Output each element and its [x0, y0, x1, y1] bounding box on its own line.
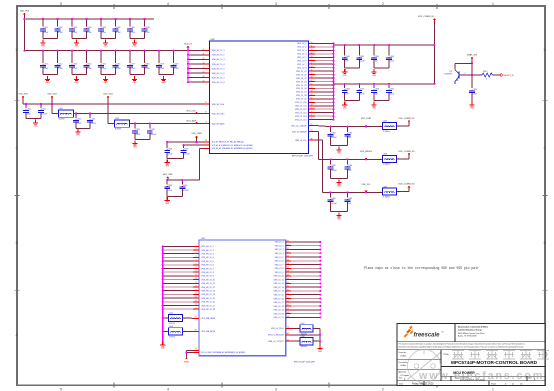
svg-text:VSS_LV_C11: VSS_LV_C11: [295, 106, 306, 108]
wire bank r1 pair0 join: [345, 67, 360, 69]
pin label VDD_LV_5: [297, 57, 306, 59]
svg-text:VSS_LV_C8: VSS_LV_C8: [296, 95, 306, 97]
svg-text:C326: C326: [168, 149, 172, 151]
svg-text:C360: C360: [331, 132, 335, 134]
capacitor C313 0.1uF (row2): [71, 50, 73, 63]
capacitor C340 bank row1: [344, 44, 346, 55]
svg-text:GND: GND: [162, 82, 167, 84]
wire pin VSS_LV_C6: [308, 87, 334, 89]
capacitor C305 0.1uF (row1): [100, 18, 102, 27]
wire bank r2 pair1 join: [374, 100, 389, 102]
svg-text:GND: GND: [41, 46, 46, 48]
svg-text:16: 16: [195, 300, 197, 302]
svg-text:VSS_HV_IO_6: VSS_HV_IO_6: [201, 265, 214, 267]
svg-text:14: 14: [195, 293, 197, 295]
svg-text:VDD_3V3: VDD_3V3: [103, 94, 113, 96]
svg-text:65: 65: [311, 94, 313, 96]
pin label VDD_LV_6: [297, 61, 306, 63]
wire L309 cap1 lower: [330, 202, 332, 211]
svg-text:TITLE:: TITLE:: [443, 354, 449, 356]
capacitor C344 bank row2: [344, 83, 346, 88]
power flag VDD_COMM_SO (L308): [398, 151, 415, 156]
wire capsP join: [167, 153, 183, 159]
wire pin VSS_HV_IO_3: [162, 252, 199, 254]
pin label VBB_LV_CLPVXT: [268, 341, 284, 343]
svg-text:72: 72: [311, 118, 313, 120]
ground bank r2 pair0: [342, 102, 347, 110]
svg-text:95: 95: [287, 297, 289, 299]
pin label VDD_HV_IO_3: [212, 59, 225, 61]
svg-text:VSS_LV_C2: VSS_LV_C2: [296, 74, 306, 76]
svg-text:1: 1: [380, 192, 381, 194]
svg-text:VSS_LV_10: VSS_LV_10: [274, 276, 284, 278]
svg-text:18: 18: [195, 308, 197, 310]
svg-text:VDD_LV_5: VDD_LV_5: [297, 57, 306, 59]
freescale logo: [404, 326, 445, 339]
svg-text:L317: L317: [301, 323, 305, 325]
svg-text:C320: C320: [174, 63, 178, 65]
power flag VDD_3V3 (chain A): [18, 94, 28, 99]
wire pin VDD_LV_5: [308, 56, 334, 58]
svg-text:C302: C302: [58, 27, 62, 29]
ferrite bead L303: [108, 123, 115, 125]
svg-text:VDD_HV_IO_7: VDD_HV_IO_7: [212, 77, 225, 79]
wire row1 cap 7 lower lead: [144, 31, 146, 38]
wire pin VSS_HV_IO_16: [162, 300, 199, 302]
wire pin VSS_LV_16: [286, 297, 322, 299]
svg-text:Size: Size: [399, 377, 402, 379]
transistor Q3: [445, 70, 466, 82]
pin label VSS_LV_13: [274, 287, 284, 289]
svg-text:3: 3: [275, 2, 277, 6]
capacitor L307 C1: [330, 126, 332, 132]
pin label VDD_HV_IO_5: [212, 68, 225, 70]
svg-text:VDD_HV_OSC: VDD_HV_OSC: [212, 113, 225, 115]
svg-text:58: 58: [311, 70, 313, 72]
capacitor C346 bank row2: [373, 83, 375, 88]
pin label VSS_LV_C8: [296, 95, 306, 97]
title block date row: [399, 382, 523, 385]
svg-text:VSS_LV_14: VSS_LV_14: [274, 291, 284, 293]
inductor L309 3.3uH: [380, 186, 399, 198]
wire row1 cap 5 lower lead: [115, 31, 117, 38]
wire row1 cap 4 lower lead: [100, 31, 102, 38]
svg-text:90: 90: [287, 278, 289, 280]
power flag VDD_COMM_SO (L307): [398, 118, 415, 123]
svg-text:2: 2: [382, 2, 384, 6]
wire pin VSS_LV_C5: [308, 84, 334, 86]
svg-text:VDD_LV_1: VDD_LV_1: [297, 43, 306, 45]
ground bank r1 pair0: [342, 69, 347, 77]
capacitor C322 2.2uF: [75, 112, 77, 117]
pin label VSS_LV_2: [275, 245, 284, 247]
svg-text:GND: GND: [75, 46, 80, 48]
pin label VDD_HV_ADR: [212, 122, 225, 125]
pin label VDD_LV_3: [297, 50, 306, 52]
wire row2 pair 1 join: [72, 74, 87, 76]
capacitor C301 0.1uF (row1): [42, 18, 44, 27]
pin label VDD_MA_SEN0: [201, 317, 215, 320]
wire pin VSS_LV_5: [286, 256, 322, 258]
pin label VSS_LV_10: [274, 276, 284, 278]
svg-text:Austin, TX 78735-8598: Austin, TX 78735-8598: [458, 335, 476, 338]
net label VDD_ADH: [186, 120, 197, 124]
svg-text:L307: L307: [383, 121, 387, 123]
wire pin VDD_HV_IO_6: [187, 72, 210, 75]
svg-text:17: 17: [195, 304, 197, 306]
svg-text:VSS_LV_C3: VSS_LV_C3: [296, 78, 306, 80]
ferrite bead L317: [291, 327, 300, 329]
svg-text:15: 15: [195, 297, 197, 299]
wire row L309: [322, 191, 382, 193]
svg-text:Date:: Date:: [399, 382, 404, 385]
capacitor L308 C2: [346, 158, 348, 164]
watermark circle emblem: [408, 350, 441, 383]
wire row2 cap 0 lower lead: [42, 68, 44, 75]
svg-text:GND: GND: [470, 108, 475, 110]
svg-text:VSS_LV_4: VSS_LV_4: [275, 253, 284, 255]
svg-text:VSS_LV_1: VSS_LV_1: [275, 242, 284, 244]
wire pin VSS_LV_C8: [308, 94, 334, 96]
wire pin VSS_HV_IO_1: [162, 245, 199, 247]
svg-text:B. Allen: B. Allen: [401, 355, 407, 358]
capacitor C317 0.1uF (row2): [129, 50, 131, 63]
wire bank r2 cap1 lower: [358, 93, 360, 101]
pin label VDD_HV_IO_4: [212, 64, 225, 66]
svg-text:44: 44: [203, 67, 205, 69]
wire pin VDD_LV_1: [308, 42, 334, 44]
capacitor C330 22uF: [469, 89, 477, 96]
svg-text:RESET_B: RESET_B: [504, 75, 515, 77]
svg-text:GND: GND: [343, 75, 348, 77]
svg-text:0.01uF: 0.01uF: [184, 154, 190, 156]
pin label VSS_LV_C2: [296, 74, 306, 76]
svg-text:VDD_COMM_SO: VDD_COMM_SO: [398, 118, 415, 120]
wire pin VSS_LV_C9: [308, 97, 334, 99]
svg-text:64: 64: [311, 91, 313, 93]
svg-text:GND: GND: [337, 218, 342, 220]
wire pin VSS_HV_IO_17: [162, 304, 199, 306]
pin label VDD_HV_IO_1: [212, 50, 225, 52]
svg-text:VBB_LV_CLPVXT: VBB_LV_CLPVXT: [268, 341, 284, 343]
svg-text:VSS_HV_IO_16: VSS_HV_IO_16: [201, 302, 215, 304]
svg-text:VDD_LV_3: VDD_LV_3: [297, 50, 306, 52]
pin label VSS_LV_1: [275, 242, 284, 244]
svg-text:C340: C340: [345, 56, 349, 58]
wire pin VSS_LV_C4: [308, 80, 334, 82]
svg-text:VSS_LV_5: VSS_LV_5: [275, 257, 284, 259]
svg-text:63: 63: [311, 87, 313, 89]
ground row1 pair 2: [103, 40, 108, 48]
pin label VDD_LV_1: [297, 43, 306, 45]
svg-text:VSS_HV_IO_13: VSS_HV_IO_13: [201, 291, 215, 293]
capacitor C321 0.01uF: [40, 103, 42, 108]
pin label VDD_LV_7: [297, 64, 306, 66]
net bus VSS left of U3C: [162, 246, 164, 343]
wire pin VSS_LV_C7: [308, 91, 334, 93]
svg-text:C361: C361: [348, 132, 352, 134]
wire line P1: [167, 140, 210, 143]
svg-text:L315: L315: [169, 313, 173, 315]
ground row2 pair 0: [45, 76, 50, 84]
wire pin stub for L307: [308, 125, 315, 127]
svg-text:VDD_3V3: VDD_3V3: [18, 94, 28, 96]
svg-text:1: 1: [166, 331, 167, 333]
wire pin VSS_LV_C2: [308, 73, 334, 75]
svg-text:Sheet: Sheet: [491, 382, 496, 385]
net flag FB3A: [184, 358, 189, 364]
svg-text:VSS_LV_C13: VSS_LV_C13: [295, 113, 307, 115]
net flag ADC_REF: [163, 173, 173, 180]
pin label VDD_LV_REG0B: [292, 130, 313, 133]
pin label VDD_HV_IO_6: [212, 73, 225, 75]
wire pin VSS_HV_IO_15: [162, 297, 199, 299]
svg-text:C361: C361: [348, 165, 352, 167]
wire pin VSS_LV_REGULB: [286, 332, 321, 336]
capacitor C316 0.1uF (row2): [114, 50, 116, 63]
svg-text:VSS_HV_IO_2: VSS_HV_IO_2: [201, 250, 214, 252]
pin label VSS_LV_C14: [295, 116, 307, 118]
wire row2 cap 1 lower lead: [57, 68, 59, 75]
wire pin VSS_HV_IO_14: [162, 293, 199, 295]
ground L308 caps: [336, 179, 341, 187]
svg-text:C307: C307: [131, 27, 135, 29]
svg-text:VSS_HV_IO_14: VSS_HV_IO_14: [201, 294, 215, 296]
svg-text:C305: C305: [102, 27, 106, 29]
svg-text:C314: C314: [87, 63, 91, 65]
ground row2 pair 4: [161, 76, 166, 84]
svg-text:VSS_LV_12: VSS_LV_12: [274, 283, 284, 285]
svg-text:VBAT_3V3: VBAT_3V3: [467, 53, 478, 56]
power flag VDD_3V3 (top-left): [20, 11, 30, 16]
svg-text:56: 56: [311, 63, 313, 65]
wire pin VSS_LV_1: [286, 241, 322, 243]
wire pin VSS_HV_IO_5: [162, 260, 199, 262]
svg-text:VSS_HV_IO_4: VSS_HV_IO_4: [201, 257, 214, 259]
title block drawing title: [443, 354, 538, 365]
capacitor C325 0.01uF: [149, 122, 151, 128]
pin label VDD_MA_ADV0: [201, 330, 215, 333]
wire pin VDD_HV_IO_3: [187, 58, 210, 61]
wire row2 cap 5 lower lead: [115, 68, 117, 75]
wire pin VSS_LV_3: [286, 248, 322, 250]
wire pin VSS_HV_IO_11: [162, 282, 199, 284]
svg-text:VDD_LV_2: VDD_LV_2: [297, 47, 306, 49]
svg-text:5: 5: [60, 387, 62, 391]
ground row2 pair 2: [103, 76, 108, 84]
svg-text:VSS_LV_C10: VSS_LV_C10: [295, 102, 307, 104]
power flag VBAT_3V3: [467, 53, 478, 59]
wire pin VDD_HV_IO_2: [187, 53, 210, 56]
ground VSS bus left: [160, 342, 165, 350]
pin label VSS_LV_8: [275, 268, 284, 270]
svg-text:C344: C344: [345, 89, 349, 91]
wire bus row1 (VDD_3V3): [23, 18, 154, 20]
wire flagC drop: [107, 99, 109, 124]
svg-text:Automotive, Industrial & Multi: Automotive, Industrial & Multi-: [458, 326, 488, 329]
wire pin VDD_HV_IO_8: [187, 81, 210, 84]
svg-text:BLM18: BLM18: [59, 119, 65, 121]
pin label VSS_LV_C7: [296, 92, 306, 94]
svg-text:C308: C308: [145, 27, 149, 29]
wire bank r2 cap3 lower: [388, 93, 390, 101]
svg-text:C321: C321: [42, 109, 46, 111]
svg-text:C360: C360: [331, 198, 335, 200]
wire L309 output: [396, 188, 409, 191]
pin label VSS_LV_20: [274, 313, 284, 315]
wire row2 cap 7 lower lead: [144, 68, 146, 75]
svg-text:DCR50: DCR50: [169, 323, 175, 325]
off-page connector RESET_B: [500, 74, 514, 77]
svg-text:VSS_LV_15: VSS_LV_15: [274, 294, 284, 296]
capacitor C327 0.01uF: [182, 144, 184, 148]
svg-text:1: 1: [112, 123, 113, 125]
wire row2 cap 6 lower lead: [129, 68, 131, 75]
svg-text:C317: C317: [131, 63, 135, 65]
svg-text:VDD_PMB: VDD_PMB: [191, 133, 202, 135]
wire pin VDD_LV_7: [308, 63, 334, 65]
svg-text:VDD_LV_J_BKUP: VDD_LV_J_BKUP: [291, 125, 307, 127]
svg-text:59: 59: [311, 73, 313, 75]
svg-text:VSS_HV_IO_7: VSS_HV_IO_7: [201, 268, 214, 270]
svg-text:1: 1: [166, 318, 167, 320]
ferrite bead L316: [162, 330, 169, 332]
svg-text:GND: GND: [133, 46, 138, 48]
capacitor C347 bank row2: [388, 83, 390, 88]
power flag VDD_PMB: [191, 133, 202, 138]
wire pin VSS_LV_17: [286, 301, 322, 303]
svg-text:GND: GND: [337, 185, 342, 187]
svg-text:Drawn by:: Drawn by:: [399, 351, 407, 354]
ground Q3 area: [469, 102, 474, 110]
svg-text:L309: L309: [383, 186, 387, 188]
pin label VSS_HV_IO_7: [201, 268, 214, 270]
svg-text:VSS_LV_20: VSS_LV_20: [274, 313, 284, 315]
svg-text:VSS_LV_19: VSS_LV_19: [274, 310, 284, 312]
pin label VDD_LV_4: [297, 54, 306, 56]
wire pin VSS_LV_9: [286, 271, 322, 273]
svg-text:GND: GND: [337, 153, 342, 155]
pin label VDD_HV_PMU/VDD: [212, 141, 244, 144]
wire bank r1 cap2 lower: [373, 60, 375, 68]
watermark chinese characters: [452, 349, 549, 360]
wire line P2: [184, 144, 210, 146]
wire pin VSS_LV_6: [286, 259, 322, 261]
pin label VSS_LV_C12: [295, 109, 307, 111]
svg-text:93: 93: [287, 290, 289, 292]
pin label VSS_LV_C4: [296, 81, 306, 83]
wire pin VSS_LV_12: [286, 282, 322, 284]
capacitor C320 10uF: [25, 103, 27, 108]
svg-text:VDD_HV_IO_4: VDD_HV_IO_4: [212, 64, 225, 66]
svg-text:VDD_HV_ADR: VDD_HV_ADR: [212, 122, 225, 125]
svg-text:L302: L302: [59, 108, 63, 110]
wire capsB join: [76, 123, 90, 129]
svg-text:86: 86: [287, 263, 289, 265]
capacitor C315 0.1uF (row2): [100, 50, 102, 63]
svg-text:46: 46: [203, 76, 205, 78]
pin label VSS_LV_C1: [296, 71, 306, 73]
pin label VSS_HV_IO_15: [201, 298, 215, 300]
wire row2 pair 0 join: [43, 74, 58, 76]
svg-text:GND: GND: [76, 135, 81, 137]
pin label VSS_LV_9: [275, 272, 284, 274]
pin label VSS_LV_4: [275, 253, 284, 255]
svg-text:C311: C311: [44, 63, 48, 65]
svg-text:82: 82: [287, 248, 289, 250]
pin label VSS_LV_C3: [296, 78, 306, 80]
wire L307 output: [396, 123, 409, 126]
wire pin VSS_LV_13: [286, 286, 322, 288]
svg-text:6501 William Cannon Drive West: 6501 William Cannon Drive West: [458, 332, 485, 335]
svg-text:C327: C327: [184, 149, 188, 151]
capacitor C306 0.1uF (row1): [114, 18, 116, 27]
svg-text:VSS_LV_C15: VSS_LV_C15: [295, 119, 307, 121]
svg-text:1: 1: [380, 126, 381, 128]
capacitor C312 0.1uF (row2): [56, 50, 58, 63]
wire bank row2: [334, 83, 435, 85]
svg-text:13: 13: [195, 289, 197, 291]
ground row2 pair 1: [74, 76, 79, 84]
wire pin VSS_HV_IO_18: [162, 308, 199, 310]
capacitor L309 C2: [346, 191, 348, 197]
svg-text:VSS_HV_IO_3: VSS_HV_IO_3: [201, 254, 214, 256]
pin label VSS_HV_IO_4: [201, 257, 214, 259]
svg-text:VDD_HV_IO_8: VDD_HV_IO_8: [212, 82, 225, 84]
pin label VSS_HV_IO_3: [201, 254, 214, 256]
power flag VDD_3V3 (chain B): [47, 94, 57, 99]
ground chain A: [33, 120, 38, 128]
svg-text:L316: L316: [169, 326, 173, 328]
svg-text:VDD_COMM_SO: VDD_COMM_SO: [398, 151, 415, 153]
svg-text:0.01uF: 0.01uF: [331, 170, 337, 172]
svg-text:40: 40: [203, 49, 205, 51]
svg-text:55: 55: [311, 59, 313, 61]
resistor R310 0 ohm: [482, 71, 492, 81]
pin label VSS_LV_5: [275, 257, 284, 259]
pin label VSS_LV_19: [274, 310, 284, 312]
svg-text:C329: C329: [183, 185, 187, 187]
ground ADC_REF caps: [165, 197, 170, 205]
wire pin VDD_LV_6: [308, 59, 334, 61]
wire feed L308: [315, 132, 318, 160]
title block address text: [458, 326, 488, 338]
pin label VSS_HV_IO_10: [201, 279, 215, 281]
svg-text:VSS_LV_C4: VSS_LV_C4: [296, 81, 306, 83]
wire pin VSS_HV_IO_2: [162, 249, 199, 251]
svg-text:C319: C319: [160, 63, 164, 65]
svg-text:VDD_3V3: VDD_3V3: [47, 94, 57, 96]
wire L315 to U3C: [183, 316, 200, 318]
svg-text:300mW: 300mW: [301, 346, 307, 348]
pin label VSS_HV_IO_16: [201, 302, 215, 304]
capacitor C314 0.1uF (row2): [85, 50, 87, 63]
svg-text:VSS_HV_IO_5: VSS_HV_IO_5: [201, 261, 214, 263]
svg-text:VDD_HV_IO_1: VDD_HV_IO_1: [212, 50, 225, 52]
ground row1 pair 0: [40, 40, 45, 48]
wire L307 cap1 lower: [330, 137, 332, 146]
wire row1 cap 0 lower lead: [42, 31, 44, 38]
svg-text:B. Allen: B. Allen: [401, 364, 407, 367]
pin label VDD_HV_OSC: [212, 113, 225, 115]
svg-text:VSS_HV_IO_1: VSS_HV_IO_1: [201, 246, 214, 248]
wire row2 pair 4 join: [159, 74, 174, 76]
svg-text:80: 80: [287, 241, 289, 243]
wire row L308: [318, 158, 382, 160]
pin label VSS_HV_IO_9: [201, 276, 214, 278]
ground bank r2 pair1: [372, 102, 377, 110]
svg-text:VDD_OSC: VDD_OSC: [186, 111, 196, 113]
